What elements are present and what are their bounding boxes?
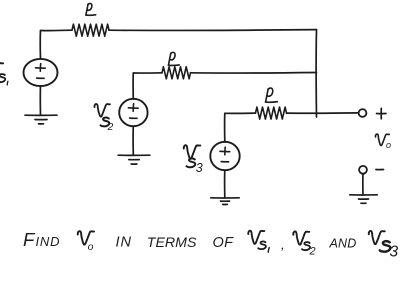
- resistor R3: [256, 107, 287, 119]
- wire: - terminal to ground: [362, 174, 364, 195]
- text "Vs1,": [248, 231, 264, 244]
- svg-text:,: ,: [281, 237, 285, 252]
- wire: top horizontal, Vs1 to R1: [41, 29, 73, 31]
- wire: branch 3 horizontal, Vs3 to R3: [225, 112, 256, 114]
- svg-text:2: 2: [107, 121, 114, 133]
- svg-text:2: 2: [309, 246, 316, 258]
- wire: R2 to right bus: [191, 72, 317, 75]
- wire: Vs3 top lead: [224, 113, 226, 142]
- label R1 value "R": [86, 4, 88, 15]
- svg-text:3: 3: [196, 161, 203, 175]
- svg-text:IND: IND: [36, 234, 61, 249]
- wire: Vs1 bottom lead: [39, 86, 41, 115]
- label Vs2: [94, 104, 110, 117]
- text "Vs2": [293, 231, 309, 244]
- svg-text:o: o: [88, 241, 94, 253]
- label Vs1 (clipped at left edge): [0, 63, 3, 77]
- resistor R1: [72, 24, 109, 36]
- wire: R3 to output node: [287, 112, 359, 114]
- svg-text:o: o: [386, 140, 391, 150]
- svg-text:TERMS: TERMS: [147, 235, 197, 251]
- svg-text:IN: IN: [116, 235, 133, 251]
- resistor R2: [162, 67, 191, 79]
- svg-text:3: 3: [390, 244, 399, 261]
- text "Vo": [78, 231, 94, 244]
- ground: output: [350, 194, 377, 196]
- ground: Vs1: [25, 114, 57, 116]
- svg-text:OF: OF: [213, 235, 235, 251]
- label: output - sign: [376, 169, 384, 171]
- wire: R1 to right bus: [109, 29, 317, 32]
- label: output + sign: [377, 113, 387, 115]
- wire: right vertical bus: [315, 30, 317, 117]
- label Vs3: [184, 145, 201, 159]
- label Vo: [375, 134, 389, 145]
- wire: Vs2 bottom lead: [132, 126, 134, 155]
- wire: Vs3 bottom lead: [224, 170, 226, 197]
- ground: Vs2: [118, 154, 150, 156]
- wire: branch 2 horizontal, Vs2 to R2: [133, 72, 162, 74]
- wire: Vs1 top lead: [39, 31, 41, 59]
- ground: Vs3: [211, 197, 239, 199]
- terminal: output - (open circle): [359, 166, 367, 174]
- voltage source Vs2: [119, 99, 147, 126]
- svg-text:F: F: [23, 229, 36, 250]
- label R3 value "R": [266, 89, 269, 102]
- terminal: output + (open circle): [359, 109, 367, 117]
- voltage source Vs3: [210, 142, 239, 170]
- label R2 value "R": [169, 53, 171, 65]
- text "Vs3": [369, 231, 385, 244]
- voltage source Vs1: [24, 59, 58, 86]
- wire: Vs2 top lead: [132, 73, 134, 99]
- svg-text:AND: AND: [329, 237, 357, 251]
